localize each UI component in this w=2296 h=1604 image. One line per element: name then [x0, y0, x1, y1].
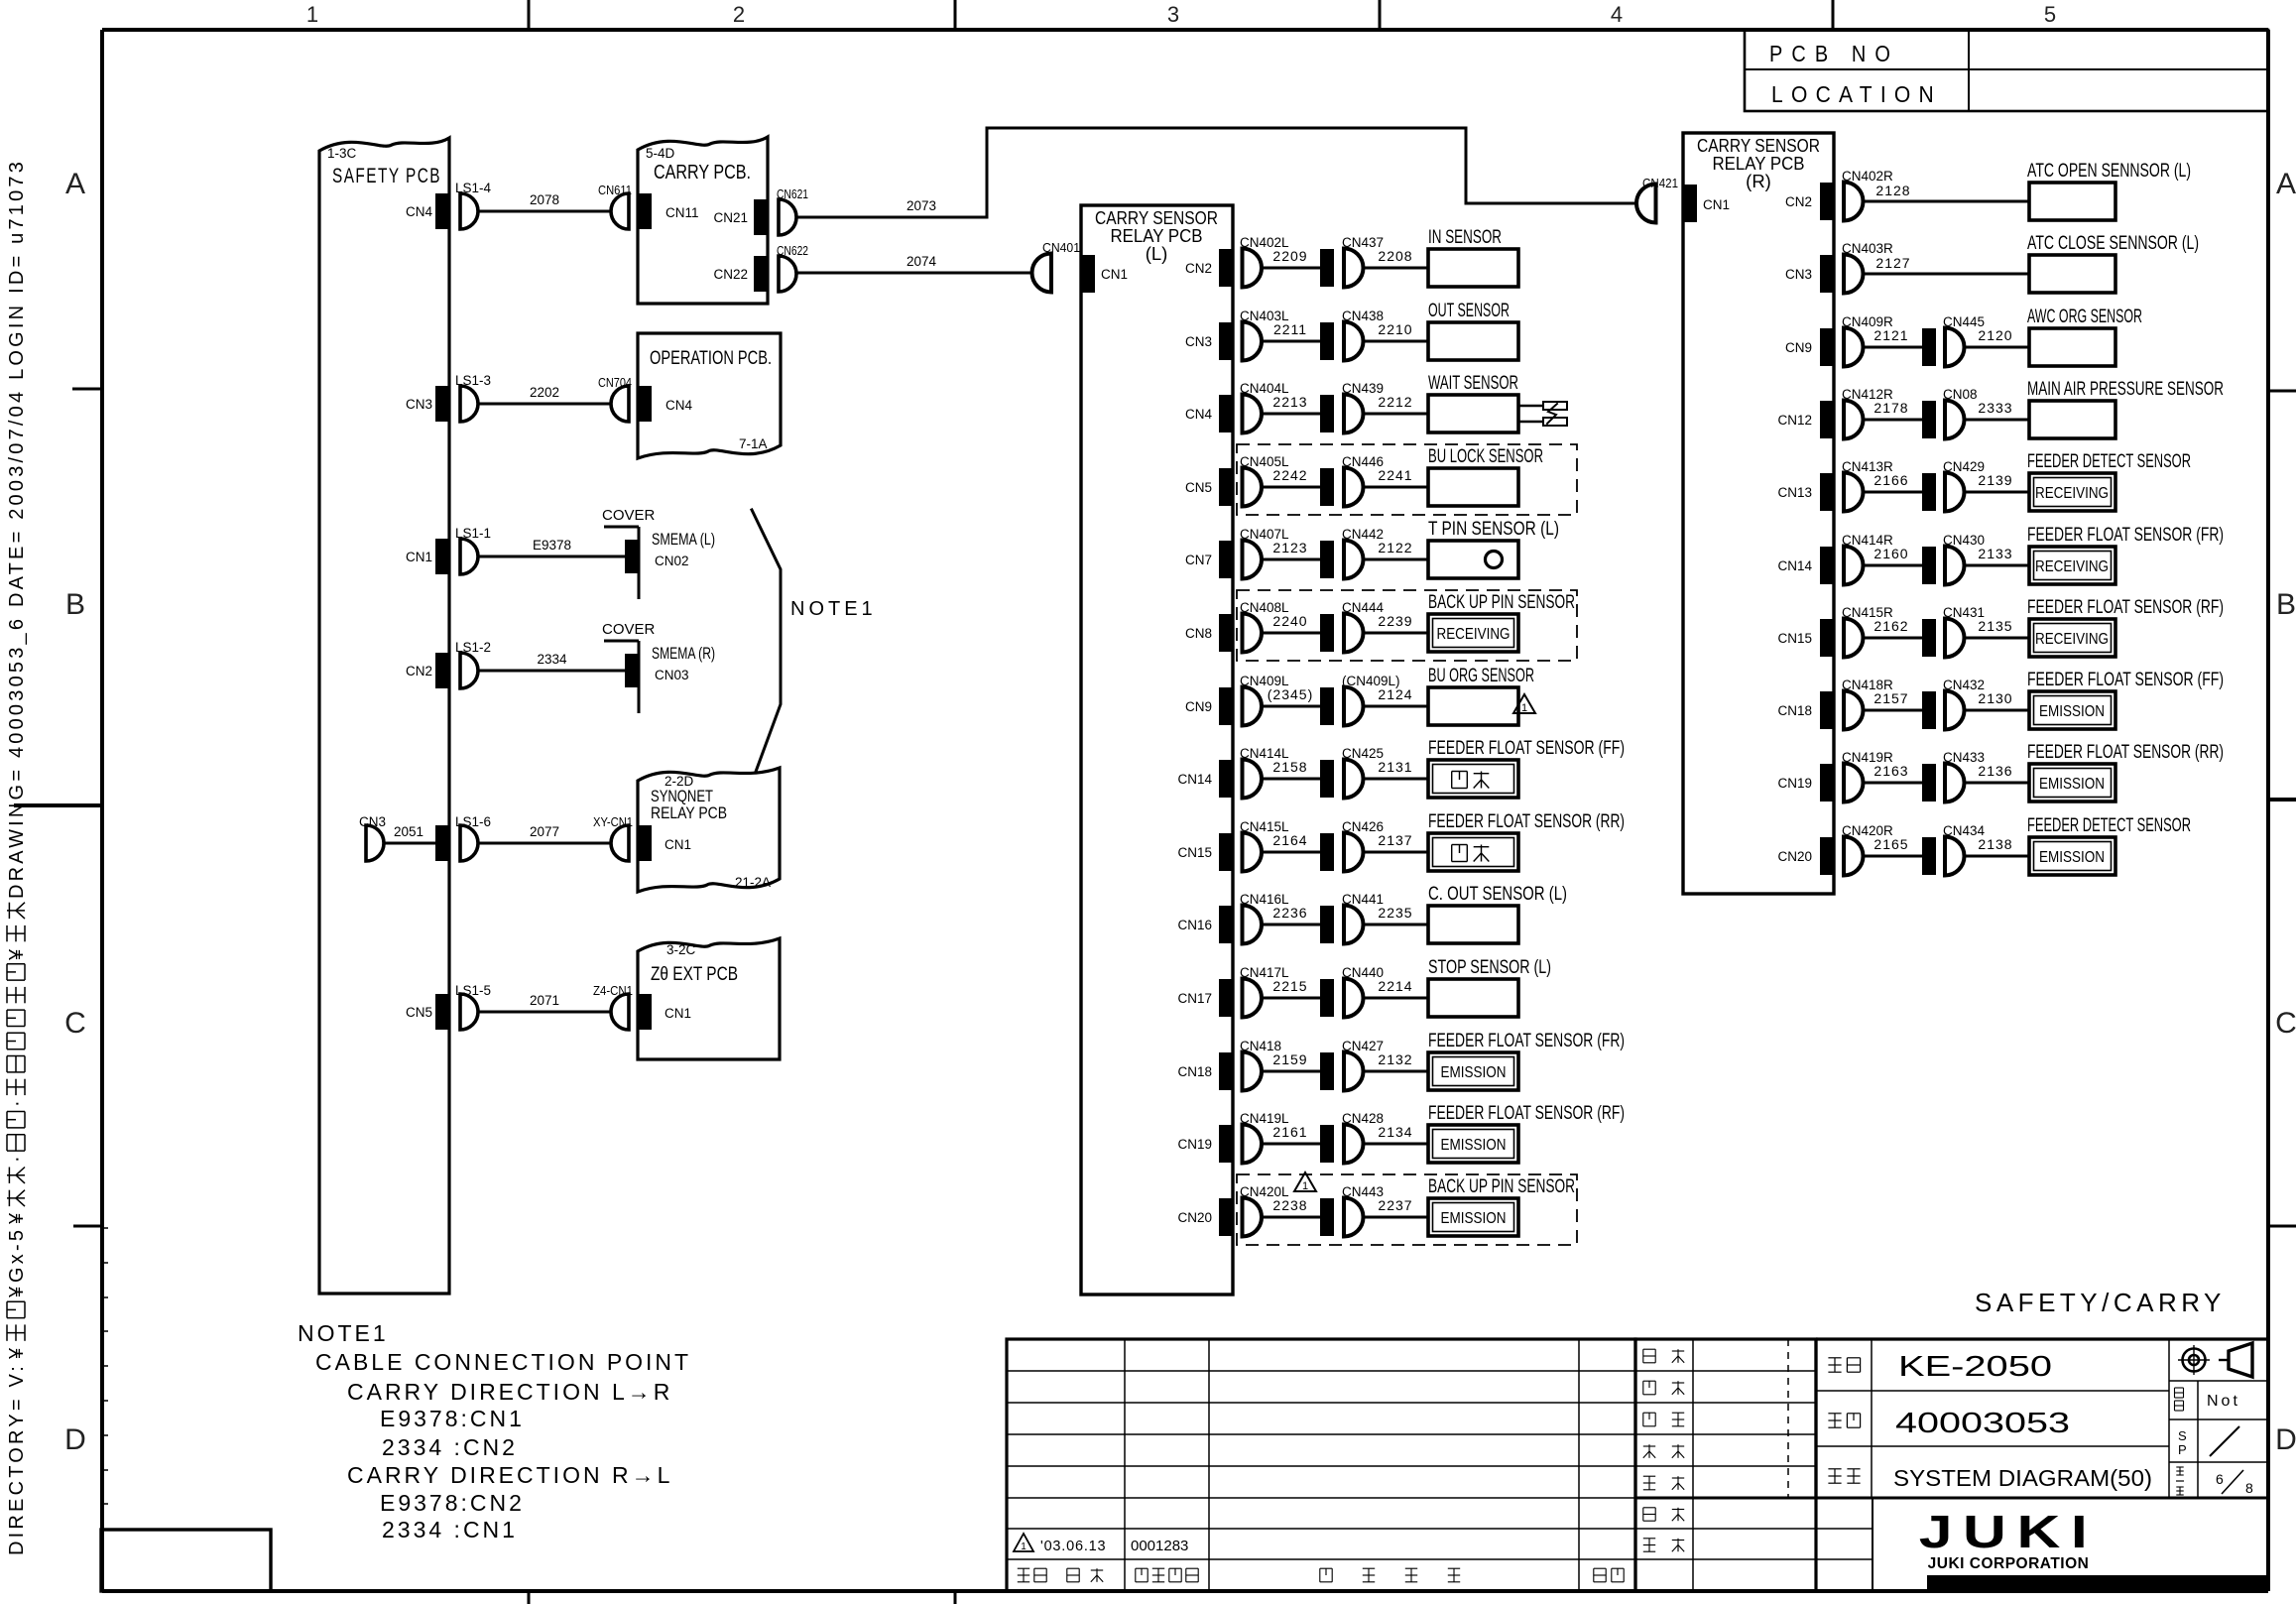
svg-text:¥: ¥: [6, 1284, 28, 1298]
svg-text:T PIN SENSOR (L): T PIN SENSOR (L): [1428, 519, 1559, 540]
svg-text:B: B: [65, 588, 85, 621]
svg-text:BACK UP PIN SENSOR: BACK UP PIN SENSOR: [1428, 1176, 1575, 1197]
svg-text:CN13: CN13: [1777, 485, 1812, 500]
svg-text:CN19: CN19: [1177, 1137, 1212, 1152]
svg-text:JUKI CORPORATION: JUKI CORPORATION: [1928, 1555, 2090, 1572]
svg-text:BACK UP PIN SENSOR: BACK UP PIN SENSOR: [1428, 592, 1575, 613]
svg-text:RECEIVING: RECEIVING: [2035, 558, 2109, 575]
svg-text:CN3: CN3: [359, 814, 386, 829]
svg-text:IN SENSOR: IN SENSOR: [1428, 227, 1502, 248]
svg-text:2158: 2158: [1272, 759, 1307, 775]
svg-text:FEEDER FLOAT SENSOR (RF): FEEDER FLOAT SENSOR (RF): [2027, 597, 2224, 618]
svg-text:2123: 2123: [1272, 540, 1307, 555]
svg-text:3: 3: [1167, 2, 1179, 27]
svg-text:FEEDER FLOAT SENSOR (FF): FEEDER FLOAT SENSOR (FF): [2027, 670, 2224, 690]
svg-text:CN2: CN2: [406, 664, 432, 679]
svg-text:DIRECTORY= V:: DIRECTORY= V:: [6, 1363, 28, 1555]
svg-text:SMEMA (L): SMEMA (L): [652, 531, 715, 549]
svg-text:CN402R: CN402R: [1842, 169, 1893, 184]
svg-text:CN18: CN18: [1777, 703, 1812, 718]
svg-text:A: A: [2276, 168, 2296, 200]
svg-text:CN1: CN1: [406, 550, 432, 564]
svg-text:2237: 2237: [1378, 1197, 1412, 1213]
svg-text:0001283: 0001283: [1131, 1538, 1188, 1554]
svg-text:CN2: CN2: [1185, 261, 1212, 276]
svg-text:LS1-5: LS1-5: [455, 983, 491, 998]
svg-text:PCB NO: PCB NO: [1769, 41, 1899, 66]
svg-text:COVER: COVER: [602, 507, 656, 524]
svg-text:CN1: CN1: [1101, 267, 1128, 282]
svg-text:STOP SENSOR (L): STOP SENSOR (L): [1428, 957, 1551, 978]
svg-text:2160: 2160: [1873, 546, 1908, 561]
svg-text:2235: 2235: [1378, 905, 1412, 921]
svg-text:EMISSION: EMISSION: [1441, 1137, 1507, 1154]
svg-text:SMEMA (R): SMEMA (R): [652, 645, 715, 663]
svg-text:C. OUT SENSOR (L): C. OUT SENSOR (L): [1428, 884, 1567, 905]
svg-text:CN5: CN5: [1185, 480, 1212, 495]
svg-text:E9378: E9378: [533, 538, 571, 553]
svg-text:2165: 2165: [1873, 836, 1908, 852]
svg-text:CN622: CN622: [777, 243, 808, 258]
svg-text:2071: 2071: [530, 993, 559, 1008]
svg-text:SAFETY/CARRY: SAFETY/CARRY: [1975, 1288, 2226, 1317]
svg-text:CN401: CN401: [1042, 240, 1080, 255]
svg-text:CN08: CN08: [1943, 387, 1978, 402]
svg-text:D: D: [64, 1423, 86, 1456]
svg-text:CABLE CONNECTION POINT: CABLE CONNECTION POINT: [315, 1349, 691, 1375]
svg-text:2240: 2240: [1272, 613, 1307, 629]
svg-text:RECEIVING: RECEIVING: [2035, 631, 2109, 648]
svg-text:5: 5: [2044, 2, 2056, 27]
svg-text:CN21: CN21: [713, 210, 748, 225]
svg-text:CN20: CN20: [1177, 1210, 1212, 1225]
svg-text:CN15: CN15: [1777, 631, 1812, 646]
svg-text:2214: 2214: [1378, 978, 1412, 994]
svg-text:CN16: CN16: [1177, 918, 1212, 932]
svg-text:2333: 2333: [1978, 400, 2012, 416]
svg-text:Z4-CN1: Z4-CN1: [593, 983, 633, 998]
svg-text:CN3: CN3: [1185, 334, 1212, 349]
svg-text:2133: 2133: [1978, 546, 2012, 561]
svg-text:CN17: CN17: [1177, 991, 1212, 1006]
svg-text:3-2C: 3-2C: [666, 942, 696, 957]
svg-text:CN03: CN03: [655, 668, 689, 682]
svg-text:(L): (L): [1146, 243, 1168, 264]
svg-text:SAFETY PCB: SAFETY PCB: [332, 165, 441, 187]
svg-text:2215: 2215: [1272, 978, 1307, 994]
svg-text:FEEDER FLOAT SENSOR (FR): FEEDER FLOAT SENSOR (FR): [1428, 1031, 1625, 1051]
svg-text:CN3: CN3: [1785, 267, 1812, 282]
svg-text:¥: ¥: [6, 946, 28, 961]
svg-text:EMISSION: EMISSION: [1441, 1210, 1507, 1227]
svg-text:2132: 2132: [1378, 1051, 1412, 1067]
svg-text:CN20: CN20: [1777, 849, 1812, 864]
svg-text:BU LOCK SENSOR: BU LOCK SENSOR: [1428, 446, 1543, 467]
svg-text:CN9: CN9: [1785, 340, 1812, 355]
svg-text:RECEIVING: RECEIVING: [1437, 626, 1511, 643]
svg-text:CN1: CN1: [665, 837, 691, 852]
svg-text:2166: 2166: [1873, 472, 1908, 488]
svg-text:2242: 2242: [1272, 467, 1307, 483]
svg-text:2137: 2137: [1378, 832, 1412, 848]
svg-text:2136: 2136: [1978, 763, 2012, 779]
svg-text:CN12: CN12: [1777, 413, 1812, 428]
svg-text:NOTE1: NOTE1: [298, 1320, 389, 1346]
svg-text:ATC OPEN SENNSOR (L): ATC OPEN SENNSOR (L): [2027, 161, 2191, 182]
svg-text:D: D: [2275, 1423, 2296, 1456]
svg-text:XY-CN1: XY-CN1: [593, 814, 633, 829]
svg-text:2241: 2241: [1378, 467, 1412, 483]
svg-text:2202: 2202: [530, 385, 559, 400]
svg-text:2127: 2127: [1875, 255, 1910, 271]
svg-text:2077: 2077: [530, 824, 559, 839]
svg-text:2122: 2122: [1378, 540, 1412, 555]
svg-text:2078: 2078: [530, 192, 559, 207]
svg-text:CN18: CN18: [1177, 1064, 1212, 1079]
svg-text:CARRY DIRECTION L→R: CARRY DIRECTION L→R: [347, 1379, 672, 1405]
svg-text:FEEDER DETECT SENSOR: FEEDER DETECT SENSOR: [2027, 451, 2191, 472]
svg-text:2139: 2139: [1978, 472, 2012, 488]
svg-text:21-2A: 21-2A: [735, 875, 771, 890]
svg-text:WAIT SENSOR: WAIT SENSOR: [1428, 373, 1518, 394]
svg-text:CN8: CN8: [1185, 626, 1212, 641]
svg-text:CN403R: CN403R: [1842, 241, 1893, 256]
svg-text:LS1-4: LS1-4: [455, 181, 492, 195]
svg-text:CN14: CN14: [1777, 558, 1812, 573]
svg-text:2128: 2128: [1875, 183, 1910, 198]
svg-text:FEEDER FLOAT SENSOR (FF): FEEDER FLOAT SENSOR (FF): [1428, 738, 1625, 759]
svg-text:B: B: [2276, 588, 2296, 621]
svg-text:'03.06.13: '03.06.13: [1040, 1539, 1106, 1554]
svg-text:2164: 2164: [1272, 832, 1307, 848]
svg-text:2162: 2162: [1873, 618, 1908, 634]
svg-text:40003053: 40003053: [1895, 1408, 2070, 1439]
svg-text:2239: 2239: [1378, 613, 1412, 629]
svg-text:FEEDER FLOAT SENSOR (FR): FEEDER FLOAT SENSOR (FR): [2027, 525, 2224, 546]
svg-text:CN11: CN11: [665, 205, 699, 220]
svg-text:EMISSION: EMISSION: [2039, 703, 2105, 720]
svg-text:2178: 2178: [1873, 400, 1908, 416]
svg-text:¥: ¥: [6, 1210, 28, 1225]
svg-text:2161: 2161: [1272, 1124, 1307, 1140]
svg-text:2208: 2208: [1378, 248, 1412, 264]
svg-text:LOCATION: LOCATION: [1771, 81, 1942, 107]
svg-text:DRAWING= 40003053_6 DATE= 2003: DRAWING= 40003053_6 DATE= 2003/07/04 LOG…: [6, 159, 28, 899]
svg-text:2209: 2209: [1272, 248, 1307, 264]
svg-text:S: S: [2178, 1428, 2187, 1443]
svg-text:LS1-6: LS1-6: [455, 814, 491, 829]
svg-text:CN2: CN2: [1785, 194, 1812, 209]
svg-text:SYNQNET: SYNQNET: [651, 788, 713, 805]
svg-text:FEEDER FLOAT SENSOR (RF): FEEDER FLOAT SENSOR (RF): [1428, 1103, 1625, 1124]
svg-text:ATC CLOSE SENNSOR (L): ATC CLOSE SENNSOR (L): [2027, 233, 2199, 254]
svg-text:7-1A: 7-1A: [739, 436, 768, 451]
svg-text:C: C: [2275, 1007, 2296, 1040]
svg-text:CN5: CN5: [406, 1005, 432, 1020]
svg-text:CN4: CN4: [665, 398, 692, 413]
svg-text:CN9: CN9: [1185, 699, 1212, 714]
svg-text:CARRY DIRECTION R→L: CARRY DIRECTION R→L: [347, 1462, 672, 1488]
svg-text:2212: 2212: [1378, 394, 1412, 410]
svg-text:2334 :CN1: 2334 :CN1: [382, 1517, 518, 1542]
svg-text:NOTE1: NOTE1: [790, 598, 877, 620]
svg-text:Gx-5: Gx-5: [6, 1227, 28, 1283]
svg-text:1: 1: [1302, 1180, 1308, 1192]
svg-text:2134: 2134: [1378, 1124, 1412, 1140]
svg-text:2138: 2138: [1978, 836, 2012, 852]
svg-text:RECEIVING: RECEIVING: [2035, 485, 2109, 502]
svg-text:FEEDER FLOAT SENSOR (RR): FEEDER FLOAT SENSOR (RR): [1428, 811, 1625, 832]
svg-text:MAIN AIR PRESSURE SENSOR: MAIN AIR PRESSURE SENSOR: [2027, 379, 2224, 400]
svg-text:CN611: CN611: [598, 183, 632, 197]
svg-text:2-2D: 2-2D: [665, 774, 694, 789]
svg-text:OUT SENSOR: OUT SENSOR: [1428, 301, 1510, 321]
svg-text:6: 6: [2216, 1471, 2224, 1487]
svg-text:CN4: CN4: [406, 204, 432, 219]
svg-text:(2345): (2345): [1268, 686, 1313, 702]
svg-text:P: P: [2178, 1442, 2187, 1457]
svg-text:2: 2: [733, 2, 745, 27]
svg-text:SYSTEM DIAGRAM(50): SYSTEM DIAGRAM(50): [1893, 1465, 2152, 1491]
svg-text:CN1: CN1: [665, 1006, 691, 1021]
svg-text:CN15: CN15: [1177, 845, 1212, 860]
svg-text:E9378:CN2: E9378:CN2: [380, 1490, 525, 1516]
svg-text:2120: 2120: [1978, 327, 2012, 343]
svg-text:2213: 2213: [1272, 394, 1307, 410]
svg-text:1: 1: [1521, 702, 1527, 714]
svg-text:Zθ EXT PCB: Zθ EXT PCB: [651, 964, 738, 985]
svg-text:BU ORG SENSOR: BU ORG SENSOR: [1428, 666, 1534, 686]
svg-text:5-4D: 5-4D: [646, 146, 675, 161]
svg-text:CN704: CN704: [598, 375, 632, 390]
svg-text:KE-2050: KE-2050: [1898, 1351, 2052, 1383]
svg-text:(R): (R): [1746, 171, 1771, 191]
svg-text:CARRY PCB.: CARRY PCB.: [654, 162, 751, 184]
svg-text:COVER: COVER: [602, 621, 656, 638]
svg-text:CN1: CN1: [1703, 197, 1730, 212]
svg-text:CN14: CN14: [1177, 772, 1212, 787]
svg-text:AWC ORG SENSOR: AWC ORG SENSOR: [2027, 307, 2142, 327]
svg-text:2051: 2051: [394, 824, 423, 839]
svg-text:CN4: CN4: [1185, 407, 1212, 422]
svg-text:2124: 2124: [1378, 686, 1412, 702]
svg-text:¥: ¥: [6, 1345, 28, 1360]
svg-text:·: ·: [6, 1153, 28, 1163]
svg-text:EMISSION: EMISSION: [1441, 1064, 1507, 1081]
svg-text:2121: 2121: [1873, 327, 1908, 343]
svg-text:EMISSION: EMISSION: [2039, 849, 2105, 866]
svg-text:CN421: CN421: [1642, 176, 1678, 190]
svg-text:4: 4: [1611, 2, 1623, 27]
svg-text:2334 :CN2: 2334 :CN2: [382, 1434, 518, 1460]
svg-text:CN02: CN02: [655, 554, 689, 568]
svg-text:8: 8: [2245, 1480, 2253, 1496]
svg-text:CN621: CN621: [777, 186, 808, 201]
svg-text:1: 1: [306, 2, 318, 27]
svg-text:LS1-1: LS1-1: [455, 526, 491, 541]
svg-text:OPERATION PCB.: OPERATION PCB.: [650, 348, 772, 369]
svg-text:JUKI: JUKI: [1919, 1507, 2099, 1557]
svg-text:E9378:CN1: E9378:CN1: [380, 1406, 525, 1431]
svg-text:C: C: [64, 1007, 86, 1040]
svg-text:2334: 2334: [537, 652, 567, 667]
svg-text:LS1-3: LS1-3: [455, 373, 491, 388]
svg-text:FEEDER DETECT SENSOR: FEEDER DETECT SENSOR: [2027, 815, 2191, 836]
svg-text:2135: 2135: [1978, 618, 2012, 634]
svg-text:EMISSION: EMISSION: [2039, 776, 2105, 793]
svg-text:2073: 2073: [906, 198, 936, 213]
svg-text:1: 1: [1021, 1542, 1027, 1552]
svg-text:2236: 2236: [1272, 905, 1307, 921]
svg-text:2131: 2131: [1378, 759, 1412, 775]
svg-text:CN7: CN7: [1185, 553, 1212, 567]
svg-text:2130: 2130: [1978, 690, 2012, 706]
svg-text:2163: 2163: [1873, 763, 1908, 779]
svg-text:A: A: [65, 168, 85, 200]
svg-text:2210: 2210: [1378, 321, 1412, 337]
svg-text:Not: Not: [2207, 1393, 2240, 1410]
svg-text:LS1-2: LS1-2: [455, 640, 491, 655]
svg-text:2074: 2074: [906, 254, 937, 269]
svg-text:CN3: CN3: [406, 397, 432, 412]
svg-text:RELAY PCB: RELAY PCB: [651, 804, 727, 822]
svg-text:2238: 2238: [1272, 1197, 1307, 1213]
svg-text:·: ·: [6, 1097, 28, 1107]
svg-text:FEEDER FLOAT SENSOR (RR): FEEDER FLOAT SENSOR (RR): [2027, 742, 2224, 763]
svg-text:1-3C: 1-3C: [327, 146, 357, 161]
svg-text:2159: 2159: [1272, 1051, 1307, 1067]
svg-text:2211: 2211: [1273, 321, 1307, 337]
svg-text:CN19: CN19: [1777, 776, 1812, 791]
svg-text:CN22: CN22: [713, 267, 748, 282]
svg-text:2157: 2157: [1873, 690, 1908, 706]
